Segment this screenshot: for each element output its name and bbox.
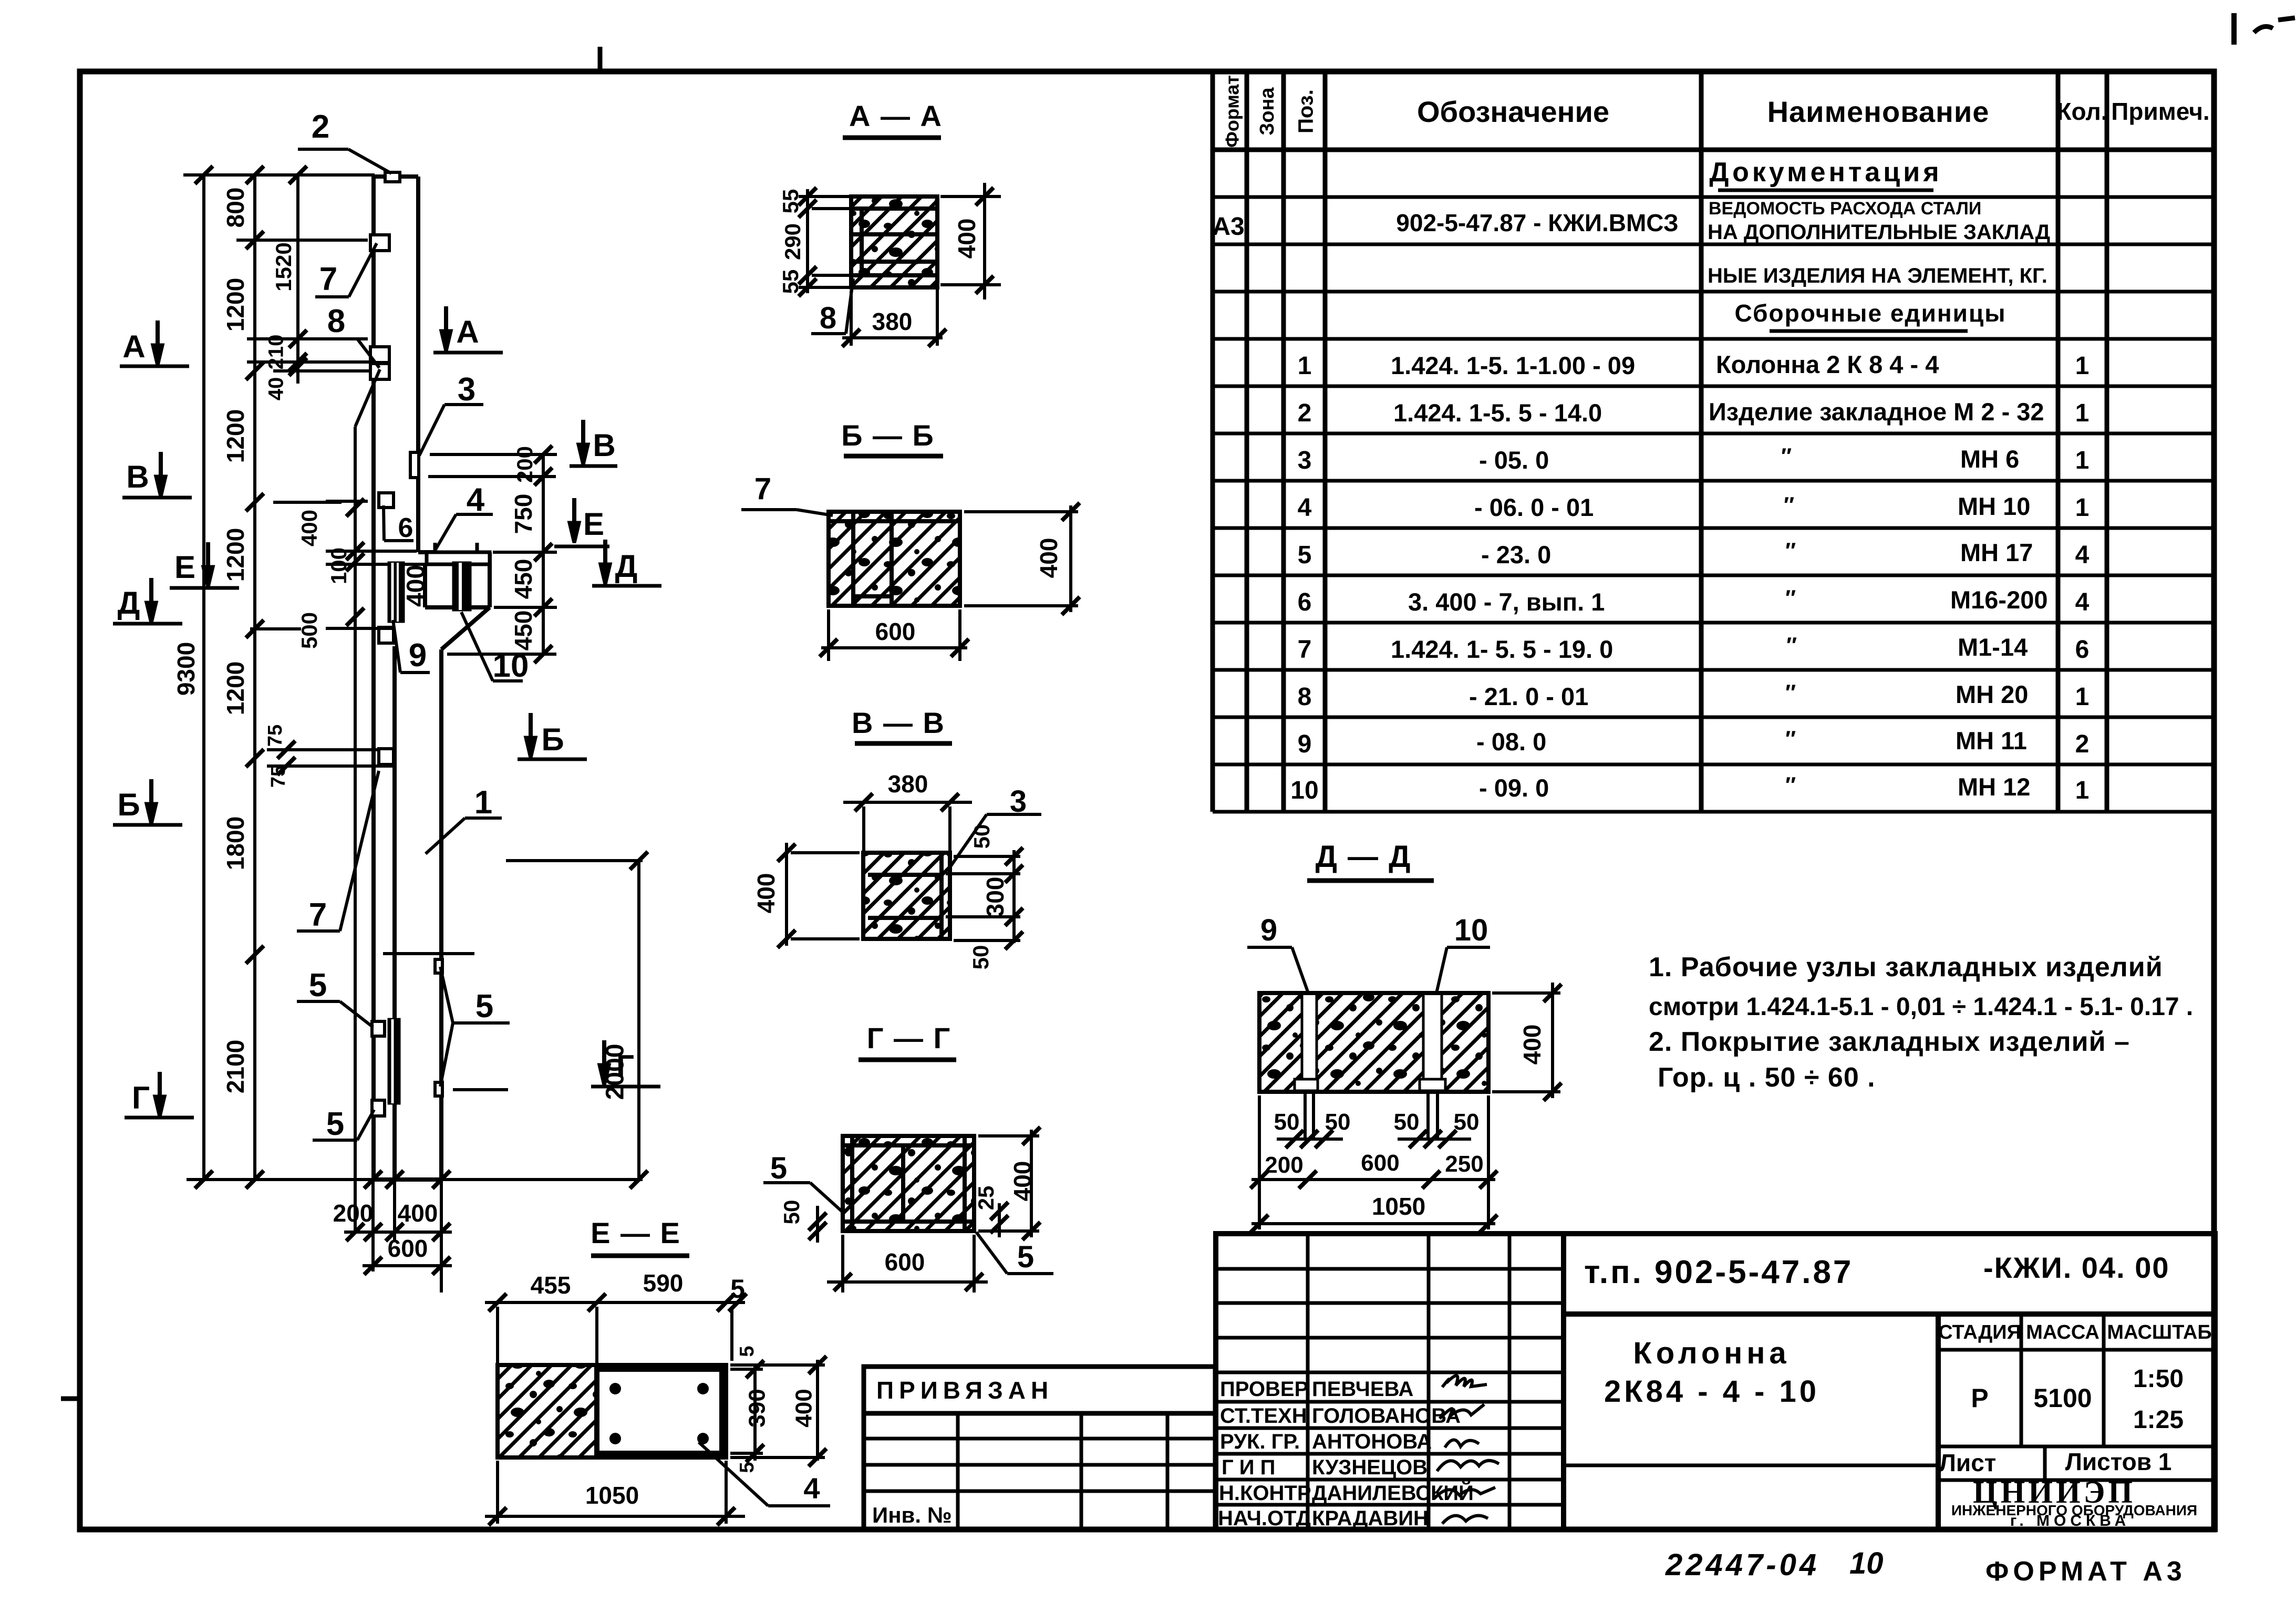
svg-text:МН 20: МН 20	[1956, 680, 2028, 708]
svg-text:Е: Е	[583, 506, 604, 542]
svg-text:Примеч.: Примеч.	[2111, 98, 2209, 125]
svg-text:М1-14: М1-14	[1958, 633, 2028, 661]
svg-text:400: 400	[1009, 1161, 1036, 1202]
svg-text:400: 400	[752, 873, 780, 914]
svg-text:902-5-47.87 - КЖИ.ВМСЗ: 902-5-47.87 - КЖИ.ВМСЗ	[1396, 209, 1678, 236]
svg-text:3: 3	[1298, 447, 1312, 474]
svg-text:50: 50	[1454, 1109, 1480, 1135]
svg-text:50: 50	[779, 1200, 804, 1225]
svg-text:ПРОВЕР.: ПРОВЕР.	[1220, 1378, 1311, 1401]
svg-text:Д: Д	[615, 549, 638, 584]
svg-text:КРАДАВИН: КРАДАВИН	[1312, 1507, 1429, 1530]
svg-text:7: 7	[309, 897, 327, 933]
svg-text:200: 200	[333, 1200, 374, 1227]
svg-text:1800: 1800	[222, 816, 249, 870]
svg-text:1200: 1200	[222, 278, 249, 332]
svg-text:Д: Д	[118, 585, 140, 621]
svg-text:400: 400	[297, 510, 322, 546]
svg-text:5: 5	[1017, 1240, 1034, 1274]
svg-text:Зона: Зона	[1256, 87, 1278, 136]
svg-text:Г — Г: Г — Г	[867, 1021, 952, 1054]
svg-text:400: 400	[1035, 538, 1062, 578]
svg-text:1050: 1050	[585, 1482, 639, 1509]
svg-text:ГОЛОВАНОВА: ГОЛОВАНОВА	[1312, 1404, 1461, 1428]
svg-text:300: 300	[981, 877, 1009, 917]
svg-text:В — В: В — В	[852, 706, 945, 739]
svg-text:смотри 1.424.1-5.1 - 0,01 ÷ 1: смотри 1.424.1-5.1 - 0,01 ÷ 1.424.1 - 5.…	[1649, 993, 2193, 1021]
svg-text:7: 7	[754, 472, 771, 506]
svg-text:Обозначение: Обозначение	[1417, 95, 1609, 128]
svg-text:1: 1	[2075, 447, 2090, 474]
svg-text:25: 25	[974, 1186, 998, 1211]
svg-text:Е: Е	[174, 550, 195, 585]
svg-text:600: 600	[388, 1235, 428, 1262]
svg-text:″: ″	[1785, 680, 1796, 705]
svg-text:Инв. №: Инв. №	[872, 1503, 952, 1527]
svg-text:380: 380	[872, 308, 913, 335]
svg-text:450: 450	[510, 559, 537, 599]
svg-text:10: 10	[1290, 777, 1318, 804]
svg-text:ВЕДОМОСТЬ РАСХОДА СТАЛИ: ВЕДОМОСТЬ РАСХОДА СТАЛИ	[1709, 199, 1981, 219]
svg-text:Г: Г	[616, 1049, 634, 1084]
svg-text:9: 9	[1260, 913, 1277, 947]
svg-text:Изделие закладное М 2 - 32: Изделие закладное М 2 - 32	[1709, 398, 2044, 426]
svg-text:3: 3	[1010, 784, 1027, 819]
svg-text:КУЗНЕЦОВ: КУЗНЕЦОВ	[1312, 1456, 1428, 1479]
svg-text:400: 400	[791, 1389, 817, 1427]
svg-text:1.424. 1-5. 5 - 14.0: 1.424. 1-5. 5 - 14.0	[1393, 399, 1602, 427]
svg-text:400: 400	[398, 1200, 438, 1227]
svg-text:1.424. 1- 5. 5 - 19. 0: 1.424. 1- 5. 5 - 19. 0	[1391, 635, 1613, 663]
svg-text:МН 12: МН 12	[1958, 773, 2030, 801]
svg-text:РУК. ГР.: РУК. ГР.	[1220, 1430, 1300, 1453]
svg-text:455: 455	[531, 1271, 571, 1299]
svg-text:7: 7	[319, 261, 337, 297]
svg-text:1200: 1200	[222, 661, 249, 715]
svg-text:″: ″	[1785, 726, 1796, 751]
svg-text:55: 55	[778, 189, 803, 214]
svg-text:1:50: 1:50	[2133, 1365, 2184, 1393]
svg-text:″: ″	[1786, 633, 1797, 657]
svg-text:М16-200: М16-200	[1950, 586, 2048, 614]
svg-text:г. МОСКВА: г. МОСКВА	[2010, 1512, 2130, 1529]
svg-text:8: 8	[1298, 683, 1312, 711]
svg-text:″: ″	[1785, 772, 1796, 797]
svg-text:Б: Б	[541, 722, 564, 757]
svg-text:Г И П: Г И П	[1222, 1456, 1275, 1479]
svg-text:В: В	[593, 428, 615, 463]
svg-text:- 21. 0 - 01: - 21. 0 - 01	[1469, 683, 1588, 710]
svg-text:50: 50	[1274, 1109, 1300, 1135]
svg-text:5: 5	[309, 967, 327, 1004]
svg-text:1: 1	[2075, 777, 2090, 804]
svg-text:МН 11: МН 11	[1956, 727, 2027, 754]
svg-text:СТ.ТЕХН: СТ.ТЕХН	[1220, 1404, 1307, 1428]
svg-text:1. Рабочие узлы закладных и: 1. Рабочие узлы закладных изделий	[1649, 952, 2163, 983]
svg-text:- 23. 0: - 23. 0	[1481, 541, 1551, 568]
svg-text:400: 400	[402, 565, 430, 607]
svg-text:СТАДИЯ: СТАДИЯ	[1938, 1321, 2021, 1343]
svg-text:6: 6	[398, 513, 413, 543]
svg-text:40: 40	[265, 377, 288, 401]
svg-text:4: 4	[2075, 588, 2090, 616]
svg-text:- 08. 0: - 08. 0	[1476, 728, 1546, 756]
svg-text:1: 1	[2075, 352, 2090, 380]
svg-text:- 06. 0 - 01: - 06. 0 - 01	[1474, 493, 1594, 521]
svg-text:5: 5	[1298, 541, 1312, 569]
svg-text:10: 10	[1849, 1546, 1884, 1580]
svg-text:55: 55	[778, 270, 803, 294]
svg-text:400: 400	[953, 219, 980, 259]
svg-text:Колонна: Колонна	[1633, 1336, 1790, 1370]
svg-text:НАЧ.ОТД: НАЧ.ОТД	[1218, 1507, 1311, 1530]
svg-text:Г: Г	[132, 1080, 150, 1115]
svg-text:5: 5	[326, 1106, 344, 1142]
svg-text:″: ″	[1785, 585, 1796, 610]
svg-text:Наименование: Наименование	[1767, 95, 1990, 128]
svg-text:400: 400	[1518, 1025, 1546, 1065]
svg-text:МАСШТАБ: МАСШТАБ	[2107, 1321, 2211, 1343]
svg-text:Р: Р	[1971, 1383, 1988, 1413]
svg-text:800: 800	[222, 188, 249, 228]
svg-text:600: 600	[875, 618, 916, 645]
svg-text:5100: 5100	[2033, 1383, 2092, 1413]
svg-text:5: 5	[736, 1346, 758, 1357]
svg-text:Б: Б	[117, 787, 140, 822]
svg-text:1520: 1520	[271, 242, 296, 291]
svg-text:-КЖИ. 04. 00: -КЖИ. 04. 00	[1983, 1251, 2170, 1284]
svg-text:2: 2	[312, 109, 329, 145]
svg-text:Н.КОНТР: Н.КОНТР	[1219, 1482, 1311, 1505]
svg-text:″: ″	[1784, 492, 1794, 517]
svg-text:Е — Е: Е — Е	[591, 1216, 681, 1249]
svg-text:1200: 1200	[222, 528, 249, 582]
svg-text:1: 1	[2075, 494, 2090, 522]
svg-text:МН 17: МН 17	[1960, 539, 2033, 566]
svg-text:590: 590	[643, 1269, 684, 1297]
svg-text:1050: 1050	[1372, 1193, 1425, 1220]
svg-text:НЫЕ ИЗДЕЛИЯ НА ЭЛЕМЕНТ, КГ.: НЫЕ ИЗДЕЛИЯ НА ЭЛЕМЕНТ, КГ.	[1708, 264, 2047, 287]
svg-text:″: ″	[1781, 443, 1792, 468]
svg-text:1: 1	[2075, 683, 2090, 711]
svg-text:ДАНИЛЕВСКИЙ: ДАНИЛЕВСКИЙ	[1312, 1481, 1474, 1505]
svg-text:5: 5	[475, 988, 493, 1025]
svg-text:75: 75	[267, 766, 289, 788]
svg-text:600: 600	[1361, 1150, 1399, 1176]
svg-text:″: ″	[1785, 538, 1796, 563]
svg-text:2: 2	[2075, 730, 2090, 758]
svg-text:8: 8	[327, 303, 345, 339]
svg-text:50: 50	[1325, 1109, 1351, 1135]
svg-text:7: 7	[1298, 636, 1312, 664]
svg-text:500: 500	[297, 612, 322, 649]
svg-text:Лист: Лист	[1939, 1449, 1997, 1476]
svg-text:290: 290	[780, 223, 805, 260]
svg-text:ПЕВЧЕВА: ПЕВЧЕВА	[1312, 1378, 1413, 1401]
svg-text:Б — Б: Б — Б	[841, 419, 935, 452]
svg-text:8: 8	[820, 301, 836, 335]
svg-text:В: В	[126, 459, 149, 494]
svg-text:9: 9	[409, 637, 427, 674]
svg-text:ФОРМАТ А3: ФОРМАТ А3	[1985, 1556, 2186, 1587]
svg-text:4: 4	[2075, 541, 2090, 569]
svg-text:10: 10	[1454, 913, 1488, 947]
svg-text:Д — Д: Д — Д	[1316, 840, 1412, 874]
svg-text:6: 6	[2075, 636, 2090, 664]
svg-text:200: 200	[1265, 1152, 1303, 1178]
svg-text:МН 10: МН 10	[1958, 492, 2030, 520]
svg-text:- 05. 0: - 05. 0	[1479, 446, 1549, 474]
svg-text:10: 10	[493, 648, 529, 684]
svg-text:АНТОНОВА: АНТОНОВА	[1312, 1430, 1432, 1453]
svg-text:МАССА: МАССА	[2026, 1321, 2100, 1343]
svg-text:75: 75	[264, 725, 286, 747]
svg-text:200: 200	[512, 446, 537, 483]
svg-text:210: 210	[265, 335, 288, 370]
svg-text:Документация: Документация	[1709, 157, 1942, 188]
svg-text:1:25: 1:25	[2133, 1406, 2184, 1434]
svg-text:т.п. 902-5-47.87: т.п. 902-5-47.87	[1584, 1254, 1853, 1290]
svg-text:1.424. 1-5. 1-1.00 - 09: 1.424. 1-5. 1-1.00 - 09	[1391, 351, 1635, 379]
svg-text:750: 750	[510, 494, 537, 534]
svg-text:50: 50	[968, 945, 993, 970]
svg-text:Поз.: Поз.	[1295, 89, 1318, 133]
svg-text:1: 1	[1298, 352, 1312, 380]
svg-text:2К84 - 4 - 10: 2К84 - 4 - 10	[1604, 1374, 1819, 1409]
svg-text:Листов 1: Листов 1	[2065, 1448, 2172, 1475]
svg-text:НА ДОПОЛНИТЕЛЬНЫЕ ЗАКЛАД: НА ДОПОЛНИТЕЛЬНЫЕ ЗАКЛАД	[1708, 221, 2050, 244]
svg-text:9300: 9300	[172, 642, 200, 696]
svg-text:А: А	[122, 329, 145, 364]
svg-text:3. 400 - 7, вып. 1: 3. 400 - 7, вып. 1	[1408, 588, 1605, 616]
svg-text:2: 2	[1298, 399, 1312, 427]
svg-text:МН 6: МН 6	[1960, 445, 2019, 473]
svg-text:50: 50	[969, 824, 994, 849]
svg-text:4: 4	[1298, 494, 1312, 522]
svg-text:450: 450	[510, 611, 537, 651]
svg-text:5: 5	[730, 1274, 745, 1304]
svg-text:5: 5	[736, 1462, 758, 1473]
svg-text:- 09. 0: - 09. 0	[1479, 774, 1549, 802]
svg-text:Кол.: Кол.	[2056, 98, 2107, 125]
svg-text:9: 9	[1298, 730, 1312, 758]
svg-text:5: 5	[770, 1151, 787, 1185]
svg-text:Колонна 2 К 8 4 - 4: Колонна 2 К 8 4 - 4	[1716, 350, 1939, 378]
svg-text:2100: 2100	[222, 1040, 249, 1093]
svg-text:22447-04: 22447-04	[1665, 1548, 1819, 1582]
svg-text:3: 3	[458, 371, 475, 408]
svg-text:600: 600	[885, 1248, 925, 1276]
svg-text:Формат: Формат	[1222, 75, 1243, 148]
svg-text:А — А: А — А	[849, 99, 943, 132]
svg-text:Гор. ц . 50 ÷ 60 .: Гор. ц . 50 ÷ 60 .	[1658, 1062, 1876, 1093]
svg-text:1: 1	[474, 784, 492, 821]
svg-text:4: 4	[803, 1472, 820, 1505]
svg-text:250: 250	[1445, 1151, 1483, 1177]
svg-text:А3: А3	[1212, 213, 1244, 241]
svg-text:2. Покрытие закладныx издели: 2. Покрытие закладныx изделий –	[1649, 1027, 2130, 1057]
svg-text:1200: 1200	[222, 409, 249, 463]
svg-text:6: 6	[1298, 588, 1312, 616]
svg-text:1: 1	[2075, 399, 2090, 427]
svg-text:Сборочные единицы: Сборочные единицы	[1735, 299, 2007, 327]
svg-text:390: 390	[744, 1389, 770, 1427]
svg-text:ПРИВЯЗАН: ПРИВЯЗАН	[876, 1377, 1053, 1404]
svg-text:380: 380	[888, 770, 928, 798]
svg-text:4: 4	[467, 482, 485, 518]
svg-text:50: 50	[1394, 1109, 1420, 1135]
svg-text:А: А	[456, 314, 479, 349]
